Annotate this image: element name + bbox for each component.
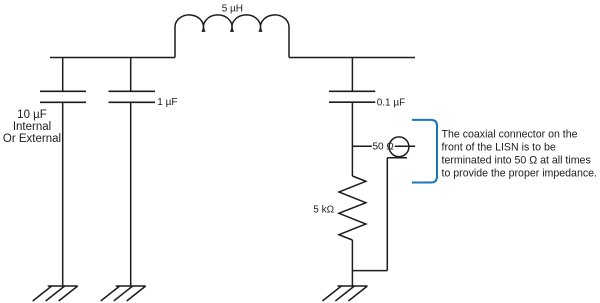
svg-text:terminated into 50 Ω at all ti: terminated into 50 Ω at all times: [442, 154, 591, 166]
svg-text:5 µH: 5 µH: [222, 4, 243, 15]
inductor L1: [175, 15, 289, 58]
callout bracket: [412, 120, 437, 183]
wire bottom link: [352, 270, 387, 272]
wire C3 top lead: [351, 58, 353, 92]
wire R1 bottom lead: [351, 240, 353, 286]
capacitor C3 plates: [329, 91, 375, 102]
wire connector return vertical: [386, 158, 388, 271]
callout note text: [442, 129, 597, 180]
connector J1 circle: [389, 137, 409, 157]
wire C1 bottom lead: [62, 102, 64, 286]
wire connector shield tangent: [387, 157, 407, 159]
svg-text:front of the LISN is to be: front of the LISN is to be: [442, 142, 556, 154]
svg-text:to provide the proper impedanc: to provide the proper impedance.: [442, 168, 597, 180]
wire C3 bottom lead: [351, 102, 353, 176]
svg-text:Or External: Or External: [3, 133, 61, 145]
svg-text:5 kΩ: 5 kΩ: [313, 205, 334, 216]
svg-text:1 µF: 1 µF: [157, 97, 177, 108]
svg-text:Internal: Internal: [13, 121, 51, 133]
ground G3: [322, 286, 367, 301]
capacitor C1 plates: [40, 91, 86, 102]
svg-text:The coaxial connector on the: The coaxial connector on the: [442, 129, 578, 141]
wire top-left bus: [50, 57, 175, 59]
ground G2: [101, 286, 146, 301]
svg-text:10 µF: 10 µF: [17, 109, 47, 121]
wire 50-ohm tap left segment: [352, 145, 372, 147]
svg-text:50 Ω: 50 Ω: [373, 142, 395, 153]
capacitor C2 plates: [109, 91, 156, 102]
wire C2 top lead: [130, 58, 132, 92]
wire top-right bus: [289, 57, 415, 59]
resistor R1: [339, 176, 366, 240]
svg-text:0.1 µF: 0.1 µF: [377, 98, 406, 109]
wire through connector: [395, 145, 415, 147]
wire C1 top lead: [62, 58, 64, 92]
ground G1: [33, 286, 78, 301]
wire C2 bottom lead: [130, 102, 132, 286]
label C1 value 10 uF Internal Or External: [3, 109, 61, 145]
